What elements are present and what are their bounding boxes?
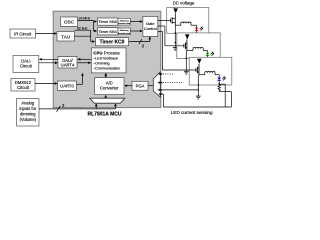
sense wire channel 2 (dashed) (161, 82, 183, 84)
mux input arrow 3 (157, 89, 159, 91)
svg-text:Dithering: Dithering (120, 19, 130, 22)
svg-text:PGA: PGA (136, 84, 145, 89)
wire DALI Circuit to DALI/UART4 (left arrow) (39, 58, 58, 61)
wire analog inputs to A/D mux (39, 103, 117, 109)
svg-text:UART4: UART4 (61, 63, 75, 68)
box DALI/UART4 (58, 57, 77, 68)
sense tap channel 3 (219, 84, 225, 107)
box Timer KB1 (98, 28, 119, 35)
wire UART0 to CPU (77, 73, 84, 84)
analog mux trapezoid (right) (153, 72, 160, 97)
svg-text:dimming: dimming (20, 111, 36, 116)
ground channel 3 (196, 96, 201, 99)
svg-text:RL78/I1A MCU: RL78/I1A MCU (88, 112, 122, 118)
sense wire channel 1 (dashed) (161, 73, 175, 75)
bus slash 3 on KC0 wire (139, 39, 145, 48)
channel 1 panel (167, 8, 209, 34)
diode D3 (197, 59, 202, 75)
box TAU (57, 32, 75, 42)
diode D1 (173, 8, 178, 25)
box Gate Control (143, 16, 158, 36)
box Dithering/Smooth start (KB1) (118, 28, 131, 35)
MOSFET Q3 (196, 67, 199, 74)
ground leg channel 1 (175, 25, 177, 47)
wire CPU to A/D (bidirectional) (105, 73, 108, 78)
MOSFET Q1 (171, 17, 176, 24)
light arrows channel 3 (222, 76, 226, 80)
svg-text:–Communication: –Communication (93, 67, 120, 71)
ground leg channel 3 (198, 75, 200, 96)
LED red channel 1 (vertical) (195, 28, 198, 34)
svg-text:Smooth start: Smooth start (118, 22, 131, 25)
ground channel 2 (184, 71, 189, 74)
mux input arrow 4 (158, 93, 160, 95)
box Analog inputs for dimming (Volume) (17, 99, 39, 126)
svg-text:–LED feedback: –LED feedback (93, 57, 118, 61)
mux input arrow 1 (158, 73, 160, 75)
wire mux to PGA (148, 85, 153, 87)
box OSC (61, 17, 78, 26)
svg-text:Circuit: Circuit (17, 85, 30, 90)
diode D2 (185, 34, 190, 50)
wire IR Circuit to TAU (36, 32, 58, 35)
svg-text:OSC: OSC (64, 20, 75, 25)
inductor L2 (187, 47, 208, 52)
MCU block RL78/I1A (53, 11, 161, 107)
svg-text:Converter: Converter (100, 86, 119, 91)
mux input arrow 2 (157, 82, 159, 84)
LED green channel 2 (vertical) (206, 53, 209, 59)
box IR Circuit (10, 29, 36, 38)
gate wire channel 3 (158, 32, 196, 71)
svg-text:(Volume): (Volume) (20, 117, 37, 122)
inductor L3 (199, 72, 219, 78)
box DALI Circuit (13, 56, 39, 73)
box Timer KB0 (98, 18, 119, 25)
box A/D Converter (95, 78, 125, 95)
svg-text:DC voltage: DC voltage (173, 1, 195, 6)
wire dithering KB1 to Gate Control (130, 30, 143, 33)
wire Timer KC0 to Gate Control (129, 36, 152, 41)
svg-text:Timer KB1: Timer KB1 (98, 29, 118, 34)
svg-text:LED current sensing: LED current sensing (171, 110, 213, 115)
svg-text:UART0: UART0 (60, 84, 74, 89)
ground leg channel 2 (186, 51, 188, 72)
wire DALI/UART4 to CPU (left arrow) (77, 58, 91, 61)
box PGA (132, 81, 148, 90)
gate wire channel 1 (158, 20, 170, 22)
svg-text:Smooth start: Smooth start (118, 32, 131, 35)
svg-text:IR Circuit: IR Circuit (14, 31, 32, 36)
box Dithering/Smooth start (KB0) (118, 18, 131, 25)
svg-text:TAU: TAU (61, 34, 70, 39)
sense wire channel 3 to MCU (161, 89, 199, 91)
svg-text:Timer KC0: Timer KC0 (100, 40, 125, 46)
wire TAU to bus (75, 35, 91, 37)
svg-text:Timer KB0: Timer KB0 (98, 19, 118, 24)
wire DMX512 to UART0 (35, 82, 58, 85)
inductor L1 (175, 22, 196, 28)
LED current sensing return bus (161, 93, 232, 107)
svg-text:–Dimming: –Dimming (93, 62, 109, 66)
gate wire channel 2 (158, 26, 184, 46)
svg-text:CPU Process: CPU Process (93, 50, 120, 55)
wire PGA to A/D (124, 84, 132, 87)
wire OSC 32kHz to Timer KC0 (75, 30, 96, 43)
box DMX512 Circuit (11, 78, 35, 91)
wire DALI/UART4 to CPU (right arrow) (77, 62, 91, 65)
channel 2 panel (177, 33, 220, 59)
svg-text:inputs for: inputs for (19, 106, 36, 111)
box Timer KC0 (96, 38, 129, 46)
wire DALI Circuit to DALI/UART4 (right arrow) (39, 62, 58, 65)
LED blue channel 3 (vertical) (218, 77, 221, 84)
light arrows channel 1 (200, 27, 204, 31)
svg-text:Control: Control (144, 26, 157, 31)
box UART0 (58, 81, 77, 90)
A/D input mux trapezoid (bottom) (90, 95, 125, 103)
MOSFET Q2 (184, 43, 187, 50)
svg-text:Analog: Analog (21, 101, 34, 106)
channel 3 panel (189, 57, 232, 85)
ground channel 1 (173, 48, 178, 51)
light arrows channel 2 (211, 52, 215, 56)
wire dithering KB0 to Gate Control (130, 20, 143, 23)
box CPU Process (91, 48, 126, 73)
svg-text:24 MHz: 24 MHz (79, 17, 91, 21)
svg-text:Circuit: Circuit (20, 64, 33, 69)
sense resistor R3 (218, 85, 231, 107)
bus slash 3 on analog wire (57, 103, 66, 112)
svg-text:32 kHz: 32 kHz (77, 26, 88, 30)
wire OSC 24MHz to timers (78, 20, 98, 32)
svg-text:Dithering: Dithering (120, 29, 130, 32)
